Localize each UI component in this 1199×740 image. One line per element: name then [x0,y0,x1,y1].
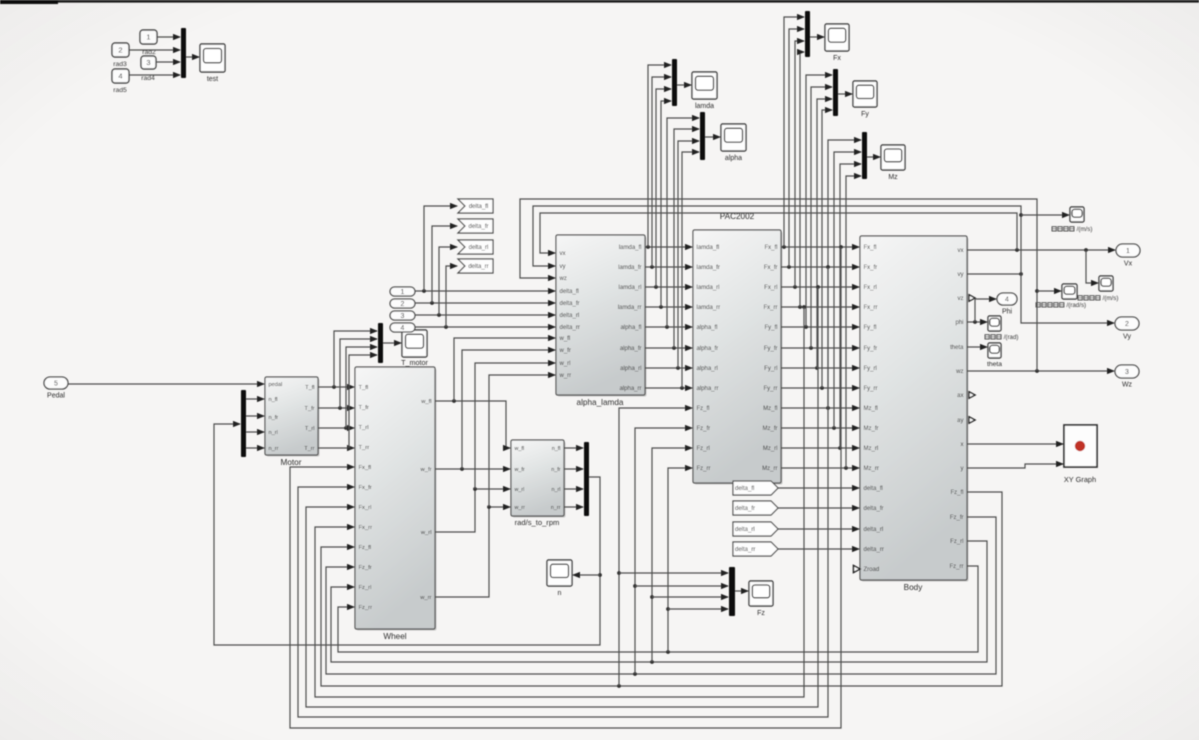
wire lamda_rl branch to scope mux [656,89,671,287]
mux test [181,28,186,78]
wire PAC2002 Fy_fr to Body [781,347,859,349]
wire alpha_fl branch to scope mux [667,118,699,327]
subsystem block alpha_lamda [556,235,647,397]
wire rad/s output to n mux [564,488,583,490]
wire alpha_rr branch to scope mux [682,152,699,388]
port In3 mid [390,311,415,320]
wire Fx_rl branch to scope mux [795,41,804,287]
wire rad/s output to n mux [564,468,583,470]
wire Body Fz_rl wrap [331,541,987,662]
wire alpha_lamda lamda_fr to PAC2002 [645,266,692,268]
wire Fz mux to scope [735,590,748,592]
wire lamda_fl branch to scope mux [648,65,671,247]
wire In1 to mux [157,36,180,38]
subsystem block Motor [265,377,320,457]
wire Mz_fr branch to scope mux [834,152,861,428]
Zroad unconnected input arrow [854,566,861,573]
wire demux to Motor n_fl [246,398,264,400]
goto tag delta_rl goto [458,240,493,254]
wire Body Fz_fl wrap [321,492,1002,686]
wire Fx_fr branch to scope mux [789,29,804,267]
wire alpha_lamda lamda_rr to PAC2002 [645,306,692,308]
wire Fy_fr branch to scope mux [811,87,832,348]
scope T_motor [401,330,428,367]
wire PAC2002 Mz_fl to Body [781,407,859,409]
wire Motor T_fr to Wheel [318,407,354,409]
unconnected output ay [969,417,975,423]
mux T_motor [378,323,383,363]
subsystem block Wheel [355,367,437,631]
wire PAC2002 Mz_fr to Body [781,427,859,429]
wire demux to Motor n_rr [246,447,264,449]
scope alpha [721,124,746,162]
demux motor [241,390,246,457]
wire PAC2002 Fx_rr to Body [781,306,859,308]
wire from delta_rl to Body [778,528,859,530]
wire Fz_rl branch to Fz mux [652,596,728,598]
wire Wheel w_fr to rad/s [435,468,510,470]
wire Body wz to outport Wz [967,370,1114,372]
wire Fz_fl branch to PAC2002 [619,408,692,686]
subsystem block rad/s_to_rpm [511,440,566,518]
port outport Wz [1115,365,1139,389]
wire In1 branch to goto delta_fl [424,206,457,291]
wire Body x to XY Graph [967,443,1063,445]
label roll angle label [985,334,1018,341]
wire rad/s output to n mux [564,447,583,449]
wire Fy mux to scope [838,93,852,95]
mux Fx [805,11,810,57]
wire vy to outport Vy [1021,274,1114,323]
wire wz feedback [520,199,1037,371]
scope Fy [853,81,877,118]
subsystem block Body [860,236,969,582]
wire In4 branch to goto delta_rr [446,266,457,327]
scope lateral speed [1070,207,1084,222]
wire In3 branch to goto delta_rl [439,247,457,315]
from tag delta_fl from [733,481,778,495]
from tag delta_rr from [733,542,778,556]
goto tag delta_rr goto [458,259,493,273]
wire Fx_rr branch to scope mux [800,52,804,307]
wire Fz_fr branch to PAC2002 [635,428,692,674]
wire Mz_fl branch to scope mux [828,140,861,408]
goto tag delta_fr goto [458,219,493,233]
mux Mz [862,132,867,179]
port Pedal inport [44,377,68,400]
from tag delta_fr from [733,501,778,515]
inport In1 rad2 [140,30,157,44]
inport In4 rad5 [112,69,129,83]
wire Fz_fl branch to Fz mux [619,572,728,574]
wire PAC2002 Fy_rl to Body [781,367,859,369]
wire Body y to XY Graph [967,464,1063,468]
wire Fz_rl branch to PAC2002 [652,448,692,662]
scope Fx [825,24,849,62]
wire Body Fz_fr wrap [326,517,996,674]
wire Fx_fr wrap to Wheel [298,267,828,717]
goto tag delta_fl goto [458,199,493,213]
scope Fz [749,581,773,617]
wire alpha_lamda alpha_fl to PAC2002 [645,326,692,328]
wire PAC2002 Fy_rr to Body [781,387,859,389]
wire alpha_fr branch to scope mux [674,129,699,348]
port In4 mid [390,323,415,332]
wire In2 branch to goto delta_fr [432,226,457,303]
scope test [200,44,225,83]
port In1 mid [390,287,415,296]
wire from delta_fl to Body [778,487,859,489]
wire vx feedback [540,213,1017,253]
wire PAC2002 Mz_rr to Body [781,467,859,469]
wire PAC2002 Fx_rl to Body [781,286,859,288]
wire from delta_fr to Body [778,507,859,509]
wire Wheel w_rr to rad/s [435,507,510,597]
wire branch to scope n [573,574,600,576]
scope longitudinal speed [1099,276,1113,291]
wire Fz_rr branch to PAC2002 [668,468,692,652]
wire T mux to scope [383,342,401,344]
wire T_fr branch to T mux [340,339,377,408]
wire from delta_rr to Body [778,548,859,550]
wire rad/s output to n mux [564,506,583,508]
wire T_fl branch to T mux [334,331,377,387]
scope lamda [692,72,717,110]
wire In1 to alpha_lamda delta_fl [415,290,555,292]
wire Pedal to Motor [68,383,264,385]
subsystem block PAC2002 [693,212,783,485]
wire Mz_rr branch to scope mux [846,176,861,468]
mux lamda [672,59,677,106]
wire demux to Motor n_rl [246,431,264,433]
wire Fy_rr branch to scope mux [822,110,832,388]
wire alpha_lamda lamda_fl to PAC2002 [645,246,692,248]
unconnected output vz [969,295,975,301]
port outport Vx [1116,244,1140,268]
wire vy to lateral speed scope [1021,214,1069,216]
wire PAC2002 Mz_rl to Body [781,447,859,449]
wire PAC2002 Fx_fl to Body [781,246,859,248]
XY Graph block [1064,425,1097,467]
unconnected output ax [969,392,975,398]
wire alpha_lamda alpha_rr to PAC2002 [645,387,692,389]
wire Fy_fl branch to scope mux [806,75,832,327]
wire Fy_rl branch to scope mux [817,99,832,368]
label lateral speed label [1052,226,1092,233]
wire Fx_rr wrap to Wheel [315,307,804,697]
wire mux to scope test [186,56,199,58]
wire phi to outport Phi [975,299,996,322]
from tag delta_rl from [733,522,778,536]
wire Fx_rl wrap to Wheel [306,287,818,707]
mux alpha [700,112,705,160]
mux Fy [833,69,838,116]
port outport Phi [997,293,1017,316]
wire PAC2002 Fy_fl to Body [781,326,859,328]
top frame line [0,0,1199,3]
wire n vector feedback to demux [214,424,600,645]
inport In3 rad4 [141,56,156,69]
wire alpha_lamda alpha_fr to PAC2002 [645,347,692,349]
port In2 mid [390,299,415,308]
wire Fz_fr branch to Fz mux [635,585,728,587]
wire Mz_rl branch to scope mux [840,164,861,448]
wire In3 to alpha_lamda delta_rl [415,314,555,316]
wire demux to Motor n_fr [246,415,264,417]
wire Motor T_fl to Wheel [318,386,354,388]
wire lamda mux to scope [677,84,691,86]
wire w_fl branch to alpha_lamda [454,338,555,401]
mux Fz [729,567,735,616]
wire w_rl branch to alpha_lamda [475,363,555,489]
wire vy feedback [533,206,1021,274]
scope n [547,560,572,597]
port outport Vy [1115,317,1139,341]
wire alpha_lamda lamda_rl to PAC2002 [645,286,692,288]
scope roll angle [988,316,1001,331]
wire alpha_lamda alpha_rl to PAC2002 [645,367,692,369]
wire Body theta to scope [967,346,987,348]
wire In2 to alpha_lamda delta_fr [415,302,555,304]
wire w_fr branch to alpha_lamda [462,350,555,469]
wire alpha_rl branch to scope mux [678,141,699,368]
wire Wheel w_fl to rad/s [435,401,510,448]
wire T_rr branch to T mux [349,355,377,448]
wire Fx mux to scope [810,36,824,38]
wire PAC2002 Fx_fr to Body [781,266,859,268]
mux n [584,442,589,516]
inport In2 rad3 [112,43,129,57]
wire Motor T_rr to Wheel [318,447,354,449]
wire alpha mux to scope [705,136,720,138]
wire wz to yaw rate scope [1037,290,1061,292]
wire Body Fz_rr wrap [338,566,978,652]
wire In4 to alpha_lamda delta_rr [415,326,555,328]
wire T_rl branch to T mux [346,347,377,428]
wire Fx_fl branch to scope mux [784,17,804,247]
wire lamda_fr branch to scope mux [652,77,671,267]
wire Fz_rr branch to Fz mux [668,608,728,610]
wire Body vx to outport Vx [967,249,1115,251]
wire Motor T_rl to Wheel [318,427,354,429]
wire vx to speed scope [1086,250,1098,283]
scope theta scope [987,343,1002,368]
wire Wheel w_rl to rad/s [435,489,510,532]
wire lamda_rr branch to scope mux [661,101,671,307]
label longitudinal speed label [1078,295,1118,302]
wire Fx_fl wrap to Wheel [290,247,841,728]
label yaw rate label [1036,302,1086,309]
scope yaw rate [1062,284,1077,299]
wire w_rr branch to alpha_lamda [489,375,555,507]
wire In4 to mux [129,74,180,76]
wire Body vy junction [967,273,1021,275]
wire In3 to mux [156,61,180,63]
wire Body phi to roll scope [967,321,987,323]
wire Mz mux to scope [867,156,880,158]
scope Mz [881,145,905,181]
wire In2 to mux [129,49,180,51]
